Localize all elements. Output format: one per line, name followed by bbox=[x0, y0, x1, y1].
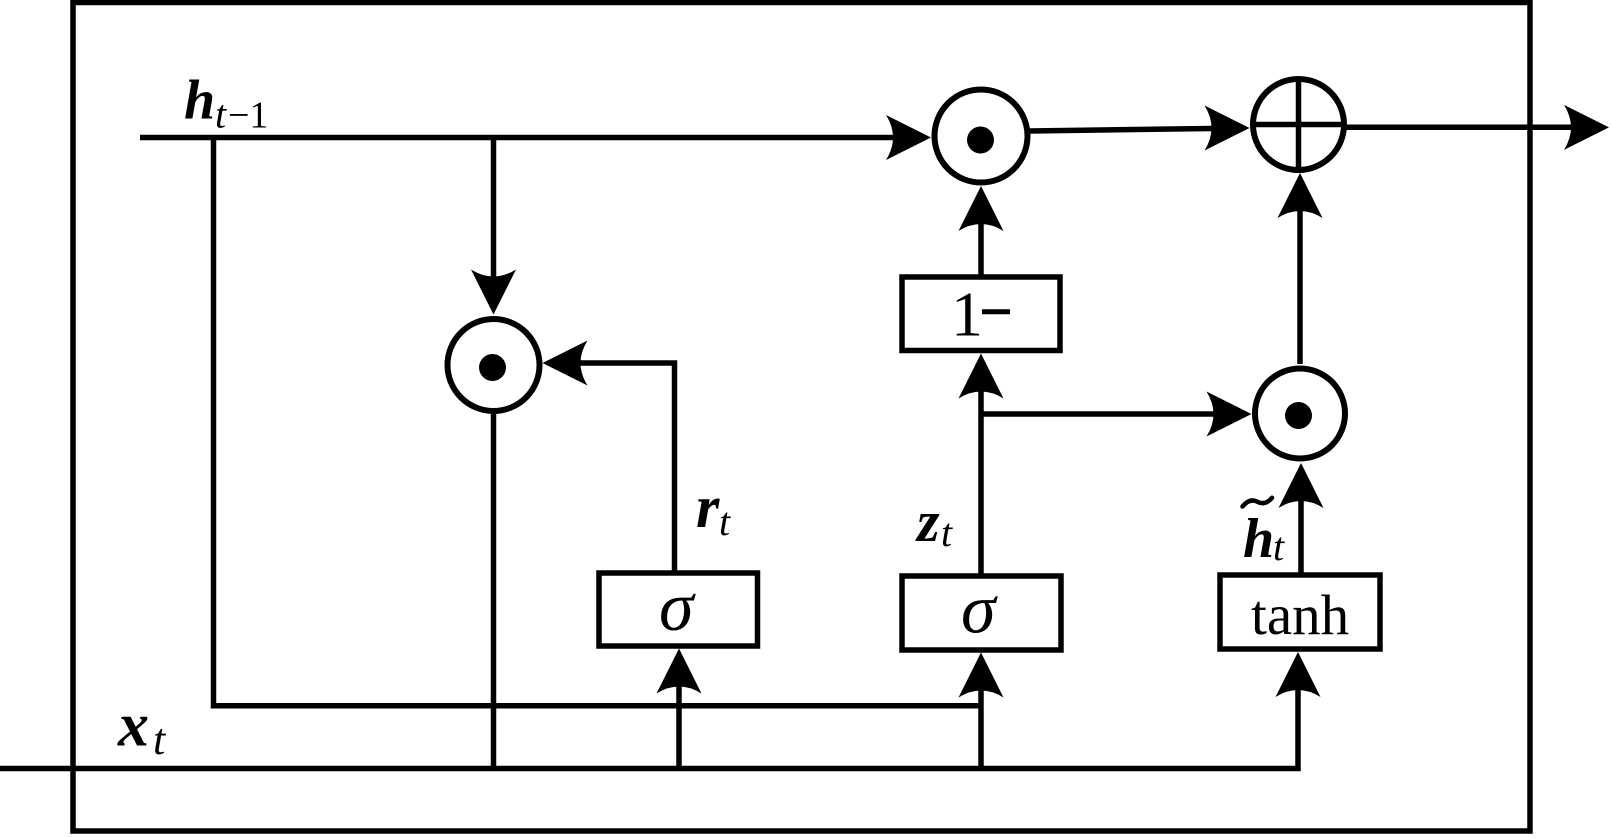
svg-text:h: h bbox=[184, 70, 215, 132]
svg-text:h: h bbox=[1243, 508, 1274, 570]
svg-text:r: r bbox=[696, 474, 720, 540]
svg-text:x: x bbox=[117, 692, 149, 760]
svg-text:1: 1 bbox=[951, 279, 983, 350]
svg-text:t: t bbox=[153, 715, 167, 764]
svg-text:−1: −1 bbox=[228, 95, 268, 137]
svg-text:tanh: tanh bbox=[1251, 584, 1349, 647]
svg-text:t: t bbox=[215, 92, 227, 137]
svg-text:σ: σ bbox=[659, 569, 696, 646]
svg-text:t: t bbox=[941, 510, 953, 555]
svg-text:z: z bbox=[915, 489, 940, 554]
svg-text:t: t bbox=[1273, 524, 1285, 569]
svg-text:σ: σ bbox=[961, 572, 998, 649]
svg-text:t: t bbox=[719, 499, 731, 544]
